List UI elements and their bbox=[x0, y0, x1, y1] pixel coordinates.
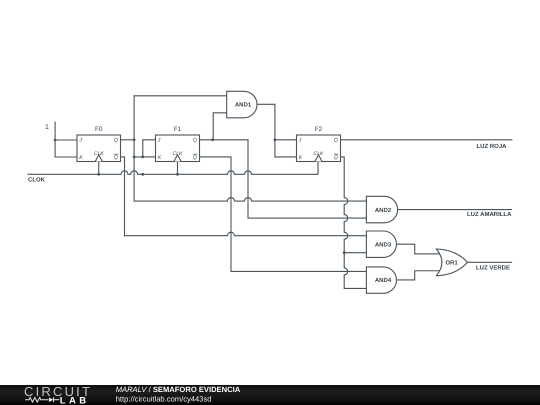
svg-text:Q: Q bbox=[193, 155, 197, 161]
svg-text:CLK: CLK bbox=[94, 151, 105, 157]
svg-text:K: K bbox=[158, 155, 162, 161]
svg-text:Q: Q bbox=[193, 138, 197, 144]
svg-text:K: K bbox=[79, 155, 83, 161]
svg-text:Q: Q bbox=[334, 155, 338, 161]
svg-text:J: J bbox=[157, 138, 161, 144]
svg-text:http://circuitlab.com/cy443sd: http://circuitlab.com/cy443sd bbox=[116, 395, 212, 404]
svg-text:J: J bbox=[78, 138, 82, 144]
svg-text:Q: Q bbox=[114, 155, 118, 161]
svg-text:K: K bbox=[299, 155, 303, 161]
svg-text:CLOK: CLOK bbox=[28, 176, 46, 183]
svg-text:F1: F1 bbox=[174, 126, 182, 133]
svg-text:Q: Q bbox=[334, 138, 338, 144]
svg-text:F0: F0 bbox=[95, 126, 103, 133]
svg-text:F2: F2 bbox=[315, 126, 323, 133]
svg-text:AND2: AND2 bbox=[375, 207, 392, 214]
svg-text:CLK: CLK bbox=[314, 151, 325, 157]
svg-text:MARALV / SEMAFORO EVIDENCIA: MARALV / SEMAFORO EVIDENCIA bbox=[116, 385, 241, 394]
svg-text:LUZ ROJA: LUZ ROJA bbox=[477, 143, 508, 150]
svg-text:J: J bbox=[298, 138, 302, 144]
svg-text:LUZ VERDE: LUZ VERDE bbox=[476, 264, 510, 271]
svg-text:AND3: AND3 bbox=[375, 241, 392, 248]
svg-text:AND4: AND4 bbox=[375, 277, 392, 284]
svg-text:LAB: LAB bbox=[60, 395, 90, 405]
svg-text:AND1: AND1 bbox=[235, 102, 252, 109]
svg-text:Q: Q bbox=[114, 138, 118, 144]
svg-text:LUZ AMARILLA: LUZ AMARILLA bbox=[467, 211, 512, 218]
svg-text:1: 1 bbox=[45, 124, 49, 131]
svg-text:CLK: CLK bbox=[173, 151, 184, 157]
svg-text:OR1: OR1 bbox=[445, 260, 458, 267]
